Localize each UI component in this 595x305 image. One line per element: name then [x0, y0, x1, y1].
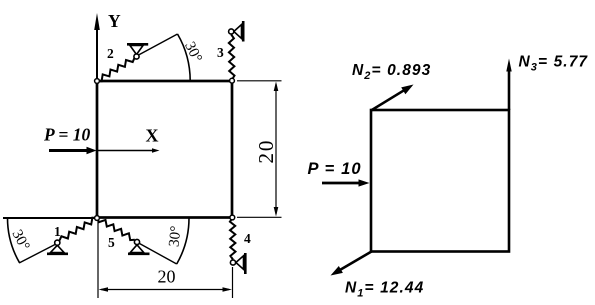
force P label (left): [43, 125, 91, 145]
force N3 arrow: [506, 59, 511, 111]
svg-text:N1= 12.44: N1= 12.44: [345, 280, 424, 300]
force P arrow (left): [49, 147, 97, 154]
Y axis label: [108, 11, 121, 31]
dimension line 20 (bottom): [99, 287, 233, 292]
svg-text:30°: 30°: [9, 227, 33, 253]
dimension extension lines (right): [237, 81, 282, 218]
angle arc 30deg (spring 1): [8, 218, 20, 263]
spring 1: [60, 218, 98, 241]
svg-text:P = 10: P = 10: [308, 160, 362, 178]
svg-text:P = 10: P = 10: [43, 125, 91, 145]
force N1 label: [345, 280, 424, 300]
angle arc 30deg (spring 2): [178, 34, 191, 81]
spring 5 axis extension line: [140, 244, 177, 265]
dimension line 20 (right): [274, 82, 279, 217]
node top-right corner: [230, 78, 235, 83]
spring 2 axis extension line: [139, 34, 178, 55]
svg-text:30°: 30°: [166, 225, 184, 248]
pin support 4: [230, 253, 245, 274]
node bottom-left corner: [95, 216, 100, 221]
svg-text:X: X: [146, 126, 159, 146]
Y axis: [94, 13, 100, 81]
force N1 arrow: [331, 252, 372, 276]
spring 4: [230, 218, 236, 260]
force N2 arrow: [371, 85, 414, 111]
svg-text:N2= 0.893: N2= 0.893: [352, 62, 431, 82]
spring 5 label: [108, 235, 115, 250]
X axis: [98, 148, 160, 152]
force P arrow (right): [322, 179, 370, 186]
svg-text:20: 20: [158, 267, 176, 287]
spring 5: [97, 218, 135, 240]
spring 3: [229, 35, 235, 80]
force N3 label: [519, 54, 589, 74]
dimension label 20 (bottom): [158, 267, 176, 287]
pin support 1: [47, 240, 68, 254]
dimension extension lines (bottom): [98, 221, 233, 298]
pin support 5: [128, 239, 150, 253]
dimension label 20 (right): [254, 139, 278, 164]
spring 3 label: [217, 45, 224, 60]
spring 1 label: [54, 224, 61, 239]
angle label 30deg (spring 1): [9, 227, 33, 253]
angle label 30deg (spring 2): [181, 39, 205, 65]
spring 2: [97, 58, 135, 81]
X axis label: [146, 126, 159, 146]
spring 2 label: [107, 46, 114, 61]
svg-text:Y: Y: [108, 11, 121, 31]
svg-text:20: 20: [254, 139, 278, 164]
svg-text:N3= 5.77: N3= 5.77: [519, 54, 589, 74]
square plate (left diagram): [97, 81, 232, 218]
pin support 2: [127, 44, 148, 59]
force N2 label: [352, 62, 431, 82]
svg-text:5: 5: [108, 235, 115, 250]
svg-text:1: 1: [54, 224, 61, 239]
node top-left corner: [95, 79, 100, 84]
angle arc 30deg (spring 5): [177, 218, 189, 264]
force P label (right): [308, 160, 362, 178]
spring 4 label: [244, 231, 251, 246]
pin support 3: [229, 21, 244, 42]
angle label 30deg (spring 5): [166, 225, 184, 248]
horizontal reference line (bottom-left): [3, 217, 97, 219]
svg-text:4: 4: [244, 231, 251, 246]
svg-text:30°: 30°: [181, 39, 205, 65]
svg-text:3: 3: [217, 45, 224, 60]
square body (right diagram): [371, 110, 509, 252]
spring 1 axis extension line: [19, 245, 55, 264]
node bottom-right corner: [230, 215, 235, 220]
svg-text:2: 2: [107, 46, 114, 61]
